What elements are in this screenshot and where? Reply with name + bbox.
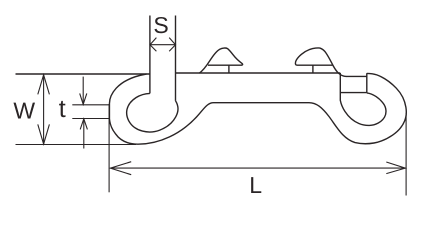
svg-text:S: S: [153, 12, 168, 38]
svg-text:W: W: [13, 98, 35, 124]
svg-text:t: t: [59, 95, 66, 123]
svg-text:L: L: [249, 172, 262, 198]
